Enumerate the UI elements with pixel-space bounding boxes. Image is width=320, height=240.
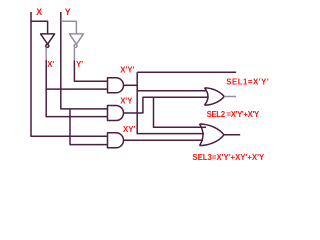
svg-text:XY': XY' (123, 125, 135, 134)
svg-text:SEL1=X'Y': SEL1=X'Y' (226, 77, 269, 86)
svg-text:X: X (36, 7, 42, 17)
svg-text:SEL2 =X'Y'+X'Y: SEL2 =X'Y'+X'Y (207, 110, 260, 119)
svg-text:X'Y': X'Y' (120, 65, 134, 74)
svg-text:X'Y: X'Y (120, 96, 133, 105)
svg-text:X': X' (47, 60, 54, 69)
svg-text:SEL3=X'Y'+XY'+X'Y: SEL3=X'Y'+XY'+X'Y (192, 153, 265, 162)
svg-text:Y': Y' (76, 60, 83, 69)
svg-text:Y: Y (65, 7, 71, 17)
